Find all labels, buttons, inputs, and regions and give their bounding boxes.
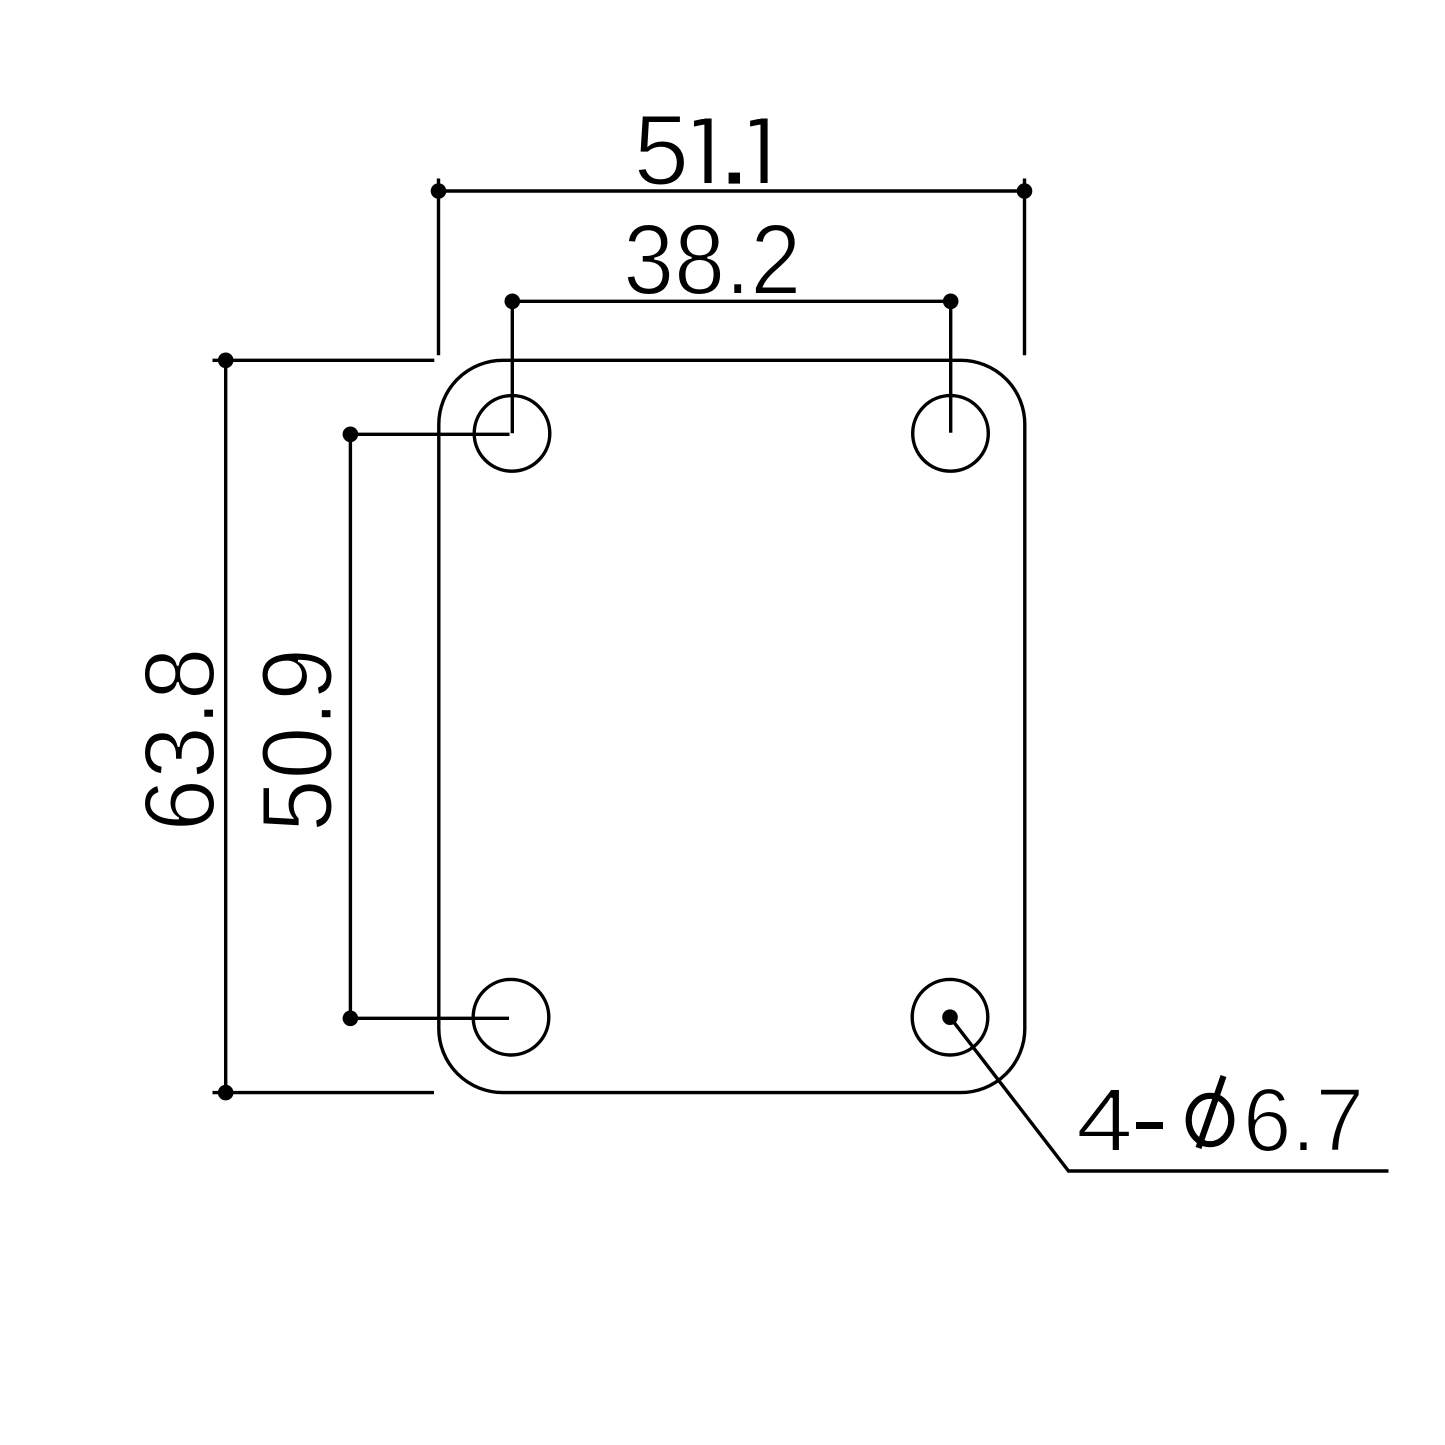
dimension 38.2 dot right <box>943 294 959 310</box>
dimension 38.2 extension line left <box>511 301 514 433</box>
dimension 50.9 dot bottom <box>343 1011 359 1027</box>
dimension 50.9 extension line bottom <box>350 1017 509 1020</box>
dimension 63.8 extension line bottom <box>213 1091 435 1094</box>
dimension 51.1 extension line right <box>1023 179 1026 356</box>
hole callout phi symbol slash <box>1199 1076 1224 1148</box>
svg-text:63.8: 63.8 <box>124 648 236 832</box>
neck plate outline <box>439 360 1025 1092</box>
svg-text:4: 4 <box>1076 1071 1133 1171</box>
dimension 38.2 dot left <box>505 294 521 310</box>
dimension 51.1 dot left <box>431 183 447 199</box>
dimension 63.8 extension line top <box>213 359 435 362</box>
svg-text:38.2: 38.2 <box>623 204 801 316</box>
dimension 50.9 extension line top <box>350 433 509 436</box>
dimension 38.2 line <box>512 300 950 303</box>
hole callout hyphen <box>1136 1122 1163 1129</box>
hole callout leader line <box>950 1017 1389 1171</box>
hole callout center dot <box>942 1009 958 1025</box>
svg-text:50.9: 50.9 <box>242 648 354 832</box>
dimension 51.1 line <box>439 189 1025 192</box>
dimension 38.2 extension line right <box>949 301 952 432</box>
svg-text:5: 5 <box>634 95 690 207</box>
dimension 51.1 dot right <box>1017 183 1033 199</box>
dimension 51.1 label digit 1 (second) <box>750 119 768 184</box>
svg-text:6.7: 6.7 <box>1243 1071 1364 1171</box>
dimension 63.8 dot top <box>218 353 234 369</box>
dimension 63.8 line <box>224 360 227 1092</box>
dimension 50.9 line <box>349 434 352 1018</box>
dimension 51.1 label decimal point <box>729 173 740 184</box>
hole top-left <box>474 396 550 472</box>
dimension 51.1 extension line left <box>437 179 440 356</box>
hole bottom-left <box>473 979 549 1055</box>
hole bottom-right <box>912 979 988 1055</box>
hole top-right <box>913 396 989 472</box>
dimension 51.1 label digit 1 (first) <box>694 119 712 184</box>
dimension 50.9 dot top <box>343 427 359 443</box>
dimension 63.8 dot bottom <box>218 1085 234 1101</box>
hole callout phi symbol circle <box>1189 1096 1232 1144</box>
